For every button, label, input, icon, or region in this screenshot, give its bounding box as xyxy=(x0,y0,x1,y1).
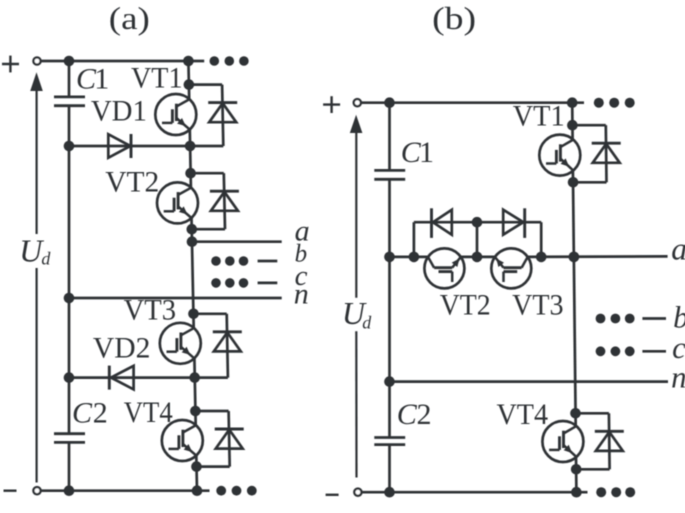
svg-text:d: d xyxy=(41,249,51,269)
svg-text:VD1: VD1 xyxy=(91,95,147,128)
svg-text:VT4: VT4 xyxy=(497,398,549,431)
svg-text:d: d xyxy=(362,313,372,333)
svg-text:C: C xyxy=(397,398,418,431)
svg-text:VT1: VT1 xyxy=(131,61,183,94)
svg-text:n: n xyxy=(294,278,309,311)
svg-text:VT4: VT4 xyxy=(124,396,173,429)
svg-text:VT2: VT2 xyxy=(440,289,491,322)
svg-text:2: 2 xyxy=(417,398,432,431)
svg-text:VT3: VT3 xyxy=(124,294,177,327)
svg-text:1: 1 xyxy=(94,62,109,95)
svg-text:(b): (b) xyxy=(432,0,476,36)
svg-text:VT1: VT1 xyxy=(513,99,565,132)
svg-text:VD2: VD2 xyxy=(93,332,150,365)
svg-text:1: 1 xyxy=(419,136,434,169)
svg-text:n: n xyxy=(671,360,685,395)
svg-text:VT2: VT2 xyxy=(105,165,159,198)
svg-text:a: a xyxy=(671,230,685,266)
svg-text:(a): (a) xyxy=(109,0,150,36)
svg-text:2: 2 xyxy=(93,397,108,430)
svg-text:C: C xyxy=(72,397,93,430)
svg-text:VT3: VT3 xyxy=(512,289,564,322)
